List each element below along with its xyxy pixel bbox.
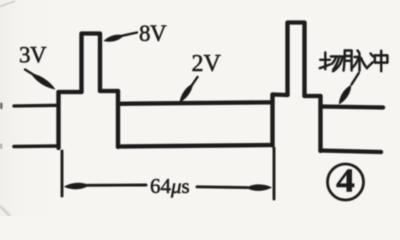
- scan smudge left edge lower: [0, 144, 2, 150]
- wire left bottom level: [14, 144, 59, 148]
- svg-text:8V: 8V: [139, 21, 167, 46]
- scan smudge left edge upper: [0, 103, 3, 110]
- wire sync pulse 2: [288, 23, 305, 97]
- svg-text:64μs: 64μs: [150, 174, 190, 198]
- wire left vertical edge: [56, 92, 60, 148]
- leader arrowhead 3V: [31, 74, 56, 90]
- wire pedestal right of pulse 1: [100, 89, 118, 93]
- circled number 4: [328, 161, 364, 200]
- leader line 2V: [191, 77, 198, 87]
- svg-text:2V: 2V: [192, 51, 222, 77]
- label field-pulse hanzi mai: [344, 51, 367, 71]
- label field-pulse hanzi chong: [368, 51, 387, 72]
- leader arrowhead field-pulse: [339, 85, 351, 105]
- leader arrowhead 8V: [104, 35, 125, 42]
- wire right baseline (top level): [321, 107, 384, 108]
- wire pedestal right of pulse 2: [305, 94, 321, 98]
- leader line field-pulse: [352, 73, 359, 85]
- dimension line right segment: [197, 185, 247, 189]
- wire pedestal left of pulse 1: [59, 90, 82, 94]
- wire sync pulse 1 (8V): [82, 34, 101, 93]
- leader arrowhead 2V: [180, 84, 194, 103]
- dimension arrowhead left: [64, 183, 90, 190]
- scan scratch top-left: [0, 1, 15, 7]
- label field-pulse hanzi chang: [320, 53, 343, 72]
- wire mid bottom level: [118, 145, 273, 147]
- wire mid top level (2V): [118, 102, 273, 104]
- wire right vertical edge: [318, 96, 322, 151]
- wire mid-left vertical edge: [116, 91, 120, 147]
- wire mid-right vertical edge: [270, 95, 274, 146]
- dimension tick right: [273, 148, 276, 199]
- leader line 8V: [122, 33, 137, 36]
- dimension line left segment: [87, 184, 146, 187]
- svg-text:3V: 3V: [19, 43, 47, 68]
- wire right bottom level: [321, 151, 382, 153]
- wire pedestal left of pulse 2: [273, 92, 288, 97]
- dimension arrowhead right: [246, 184, 272, 190]
- wire left baseline (top level): [14, 104, 59, 108]
- scan smudge bottom-left corner: [0, 206, 10, 216]
- dimension tick left: [61, 151, 64, 196]
- leader line 3V: [25, 70, 38, 78]
- svg-text:4: 4: [336, 161, 355, 199]
